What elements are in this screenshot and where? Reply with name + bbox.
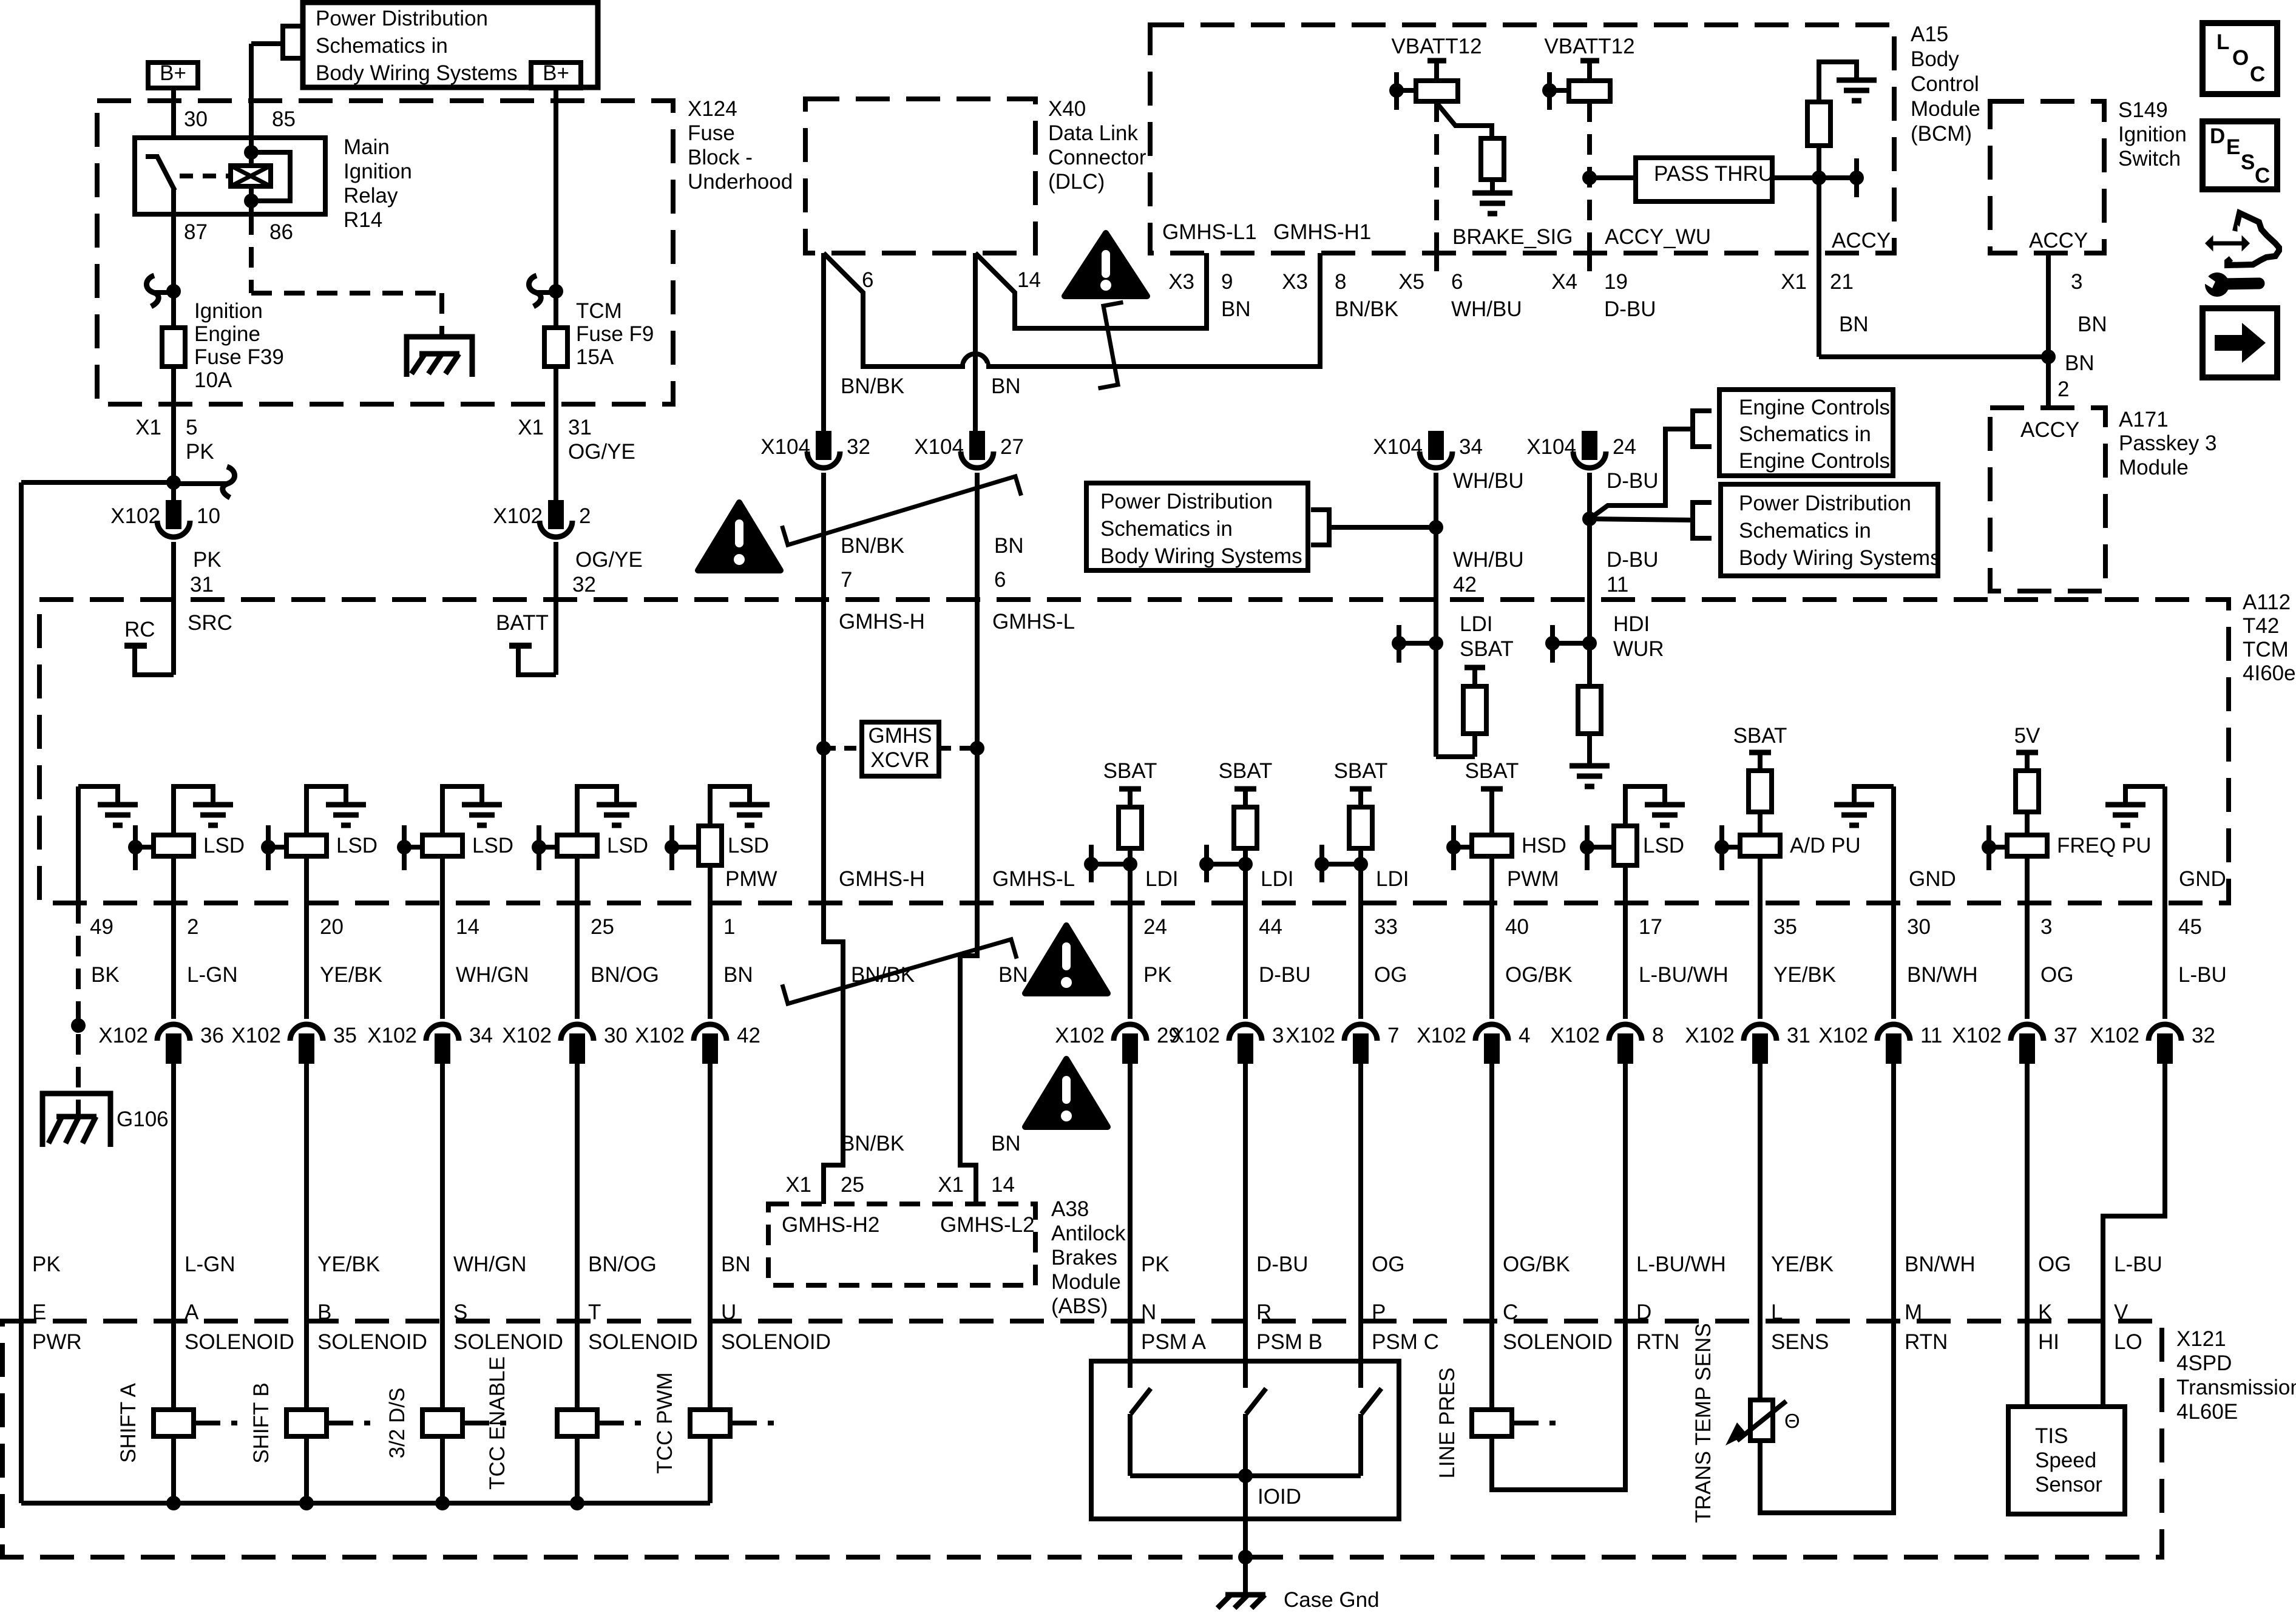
- svg-text:L-BU: L-BU: [2178, 963, 2227, 987]
- warning triangle (CAN): [698, 502, 781, 570]
- svg-text:OG: OG: [1372, 1253, 1404, 1276]
- svg-text:25: 25: [841, 1173, 864, 1197]
- svg-text:X102: X102: [1685, 1024, 1735, 1047]
- connector X102 pin 37: [2011, 1024, 2044, 1041]
- svg-text:OG: OG: [2038, 1253, 2071, 1276]
- line pres return to RTN D: [1492, 1321, 1625, 1490]
- svg-text:A15: A15: [1911, 22, 1948, 46]
- fuse F9: [544, 328, 567, 367]
- svg-text:(DLC): (DLC): [1048, 170, 1105, 194]
- svg-text:BATT: BATT: [496, 611, 549, 635]
- ground G106: [42, 1094, 110, 1147]
- svg-text:A: A: [185, 1300, 199, 1324]
- svg-text:OG/YE: OG/YE: [575, 548, 643, 572]
- wire 87 down to fuse F39: [171, 214, 176, 328]
- svg-text:Module: Module: [2119, 456, 2189, 479]
- svg-text:GMHS-L: GMHS-L: [992, 867, 1075, 891]
- wire through X1 pin 5: [171, 404, 176, 482]
- svg-text:BN: BN: [991, 374, 1021, 398]
- svg-text:PMW: PMW: [725, 867, 777, 891]
- svg-text:RTN: RTN: [1905, 1330, 1948, 1354]
- relay switch: [146, 154, 159, 159]
- connector X104 pin 34: [1430, 433, 1442, 458]
- svg-text:X102: X102: [367, 1024, 417, 1047]
- svg-text:3: 3: [2040, 915, 2052, 939]
- svg-text:87: 87: [184, 220, 208, 244]
- svg-text:85: 85: [272, 107, 296, 131]
- svg-text:LSD: LSD: [203, 834, 245, 857]
- BRAKE_SIG dashed wire: [1434, 101, 1439, 253]
- wire WH/BU 42: [1434, 473, 1438, 600]
- continuation mark (ABS wires): [782, 939, 1017, 1004]
- svg-text:X102: X102: [1055, 1024, 1105, 1047]
- svg-text:HDI: HDI: [1613, 612, 1650, 636]
- connector X102 pin 2: [550, 502, 562, 527]
- svg-text:Body Wiring Systems: Body Wiring Systems: [1739, 546, 1941, 570]
- connector X104 pin 24: [1583, 433, 1596, 458]
- svg-text:9: 9: [1221, 270, 1233, 294]
- A171 passkey 3 module box: [1990, 408, 2105, 591]
- BN junction wire: [1819, 354, 2048, 359]
- A38 antilock brakes module box: [768, 1204, 1035, 1285]
- svg-text:SRC: SRC: [188, 611, 232, 635]
- svg-text:X1: X1: [135, 416, 161, 439]
- svg-text:BN/BK: BN/BK: [841, 374, 904, 398]
- svg-text:L: L: [2216, 30, 2229, 54]
- svg-text:D-BU: D-BU: [1607, 469, 1659, 493]
- relay coil: [231, 166, 271, 186]
- svg-text:Speed: Speed: [2035, 1449, 2096, 1472]
- svg-text:C: C: [2255, 164, 2270, 188]
- svg-text:10: 10: [197, 504, 220, 528]
- svg-text:X102: X102: [1818, 1024, 1868, 1047]
- LSD driver (shift A): [174, 786, 213, 835]
- terminal B+ (right): [531, 63, 581, 88]
- svg-text:BN/WH: BN/WH: [1905, 1253, 1976, 1276]
- svg-text:Passkey 3: Passkey 3: [2119, 431, 2216, 455]
- svg-text:X104: X104: [760, 435, 810, 459]
- svg-text:33: 33: [1374, 915, 1398, 939]
- svg-text:OG/BK: OG/BK: [1503, 1253, 1570, 1276]
- svg-text:Engine: Engine: [194, 322, 260, 346]
- svg-text:Sensor: Sensor: [2035, 1473, 2102, 1496]
- svg-text:X102: X102: [502, 1024, 552, 1047]
- svg-text:C: C: [1503, 1300, 1518, 1324]
- svg-text:35: 35: [1773, 915, 1797, 939]
- svg-text:PWM: PWM: [1507, 867, 1559, 891]
- svg-text:HI: HI: [2038, 1330, 2059, 1354]
- svg-text:3/2 D/S: 3/2 D/S: [385, 1388, 409, 1459]
- svg-text:BN/BK: BN/BK: [1335, 297, 1398, 321]
- warning triangle (ABS 1): [1025, 925, 1108, 993]
- svg-text:SBAT: SBAT: [1219, 759, 1273, 783]
- wire DLC 14 down (BN): [973, 253, 978, 433]
- LSD driver (shift B): [306, 786, 346, 835]
- svg-text:Power Distribution: Power Distribution: [1739, 492, 1911, 515]
- connector X102 pin 3: [1229, 1024, 1262, 1041]
- svg-text:Ignition: Ignition: [194, 299, 263, 323]
- svg-text:BN: BN: [723, 963, 753, 987]
- GMHS XCVR: [816, 741, 831, 756]
- svg-text:14: 14: [456, 915, 479, 939]
- svg-text:Module: Module: [1911, 97, 1980, 121]
- svg-text:X124: X124: [688, 97, 737, 121]
- connector X102 pin 34: [426, 1024, 459, 1041]
- svg-text:BN: BN: [2078, 313, 2107, 336]
- svg-text:31: 31: [568, 416, 592, 439]
- svg-text:BRAKE_SIG: BRAKE_SIG: [1452, 225, 1573, 249]
- svg-text:6: 6: [862, 268, 873, 292]
- junction to pass thru: [1582, 171, 1597, 185]
- wire BN 6 to TCM GMHS-L: [975, 473, 980, 600]
- X40 data link connector box: [805, 99, 1035, 253]
- svg-text:B+: B+: [543, 61, 569, 85]
- DLC pin 6 branch to BCM GMHS-H1: [824, 253, 1320, 367]
- connector X102 pin 4: [1475, 1024, 1508, 1041]
- solenoid SHIFT B: [286, 1410, 327, 1436]
- svg-text:S: S: [453, 1300, 467, 1324]
- svg-text:5: 5: [186, 416, 197, 439]
- svg-text:GMHS-H1: GMHS-H1: [1273, 220, 1371, 244]
- X121 transmission box: [2, 1321, 2162, 1557]
- svg-text:Block -: Block -: [688, 146, 753, 169]
- connector X102 pin 11: [1877, 1024, 1910, 1041]
- icon LOC: [2203, 23, 2277, 94]
- connector X104 pin 27: [971, 433, 983, 458]
- svg-text:3: 3: [1272, 1024, 1284, 1047]
- svg-text:A/D PU: A/D PU: [1790, 834, 1861, 857]
- PSM switch: [1243, 1321, 1248, 1361]
- LSD driver (RTN): [1625, 786, 1665, 826]
- svg-text:D: D: [1636, 1300, 1651, 1324]
- svg-text:LINE PRES: LINE PRES: [1435, 1368, 1459, 1479]
- svg-text:BN: BN: [1221, 297, 1251, 321]
- svg-text:LSD: LSD: [607, 834, 648, 857]
- svg-text:5V: 5V: [2014, 724, 2040, 748]
- svg-text:2: 2: [187, 915, 198, 939]
- note box: Power Distribution Schematics in Body Wiring Systems (top): [303, 2, 598, 87]
- svg-text:D-BU: D-BU: [1259, 963, 1311, 987]
- svg-text:45: 45: [2178, 915, 2202, 939]
- PASS THRU box: [1636, 158, 1772, 201]
- svg-text:WH/GN: WH/GN: [456, 963, 529, 987]
- wire through X1 pin 31: [554, 404, 558, 502]
- svg-text:T42: T42: [2243, 614, 2279, 638]
- junction D-BU with feeds: [1582, 512, 1597, 526]
- svg-text:SOLENOID: SOLENOID: [588, 1330, 698, 1354]
- svg-text:GND: GND: [2179, 867, 2226, 891]
- continuation mark: [1099, 302, 1123, 388]
- wire BN 2 to passkey module: [2046, 357, 2051, 408]
- svg-text:SBAT: SBAT: [1103, 759, 1157, 783]
- svg-text:31: 31: [1787, 1024, 1810, 1047]
- svg-text:LSD: LSD: [728, 834, 769, 857]
- svg-text:PK: PK: [193, 548, 222, 572]
- pin X3 9: [1204, 253, 1209, 271]
- svg-text:Body: Body: [1911, 47, 1959, 71]
- svg-text:OG: OG: [1374, 963, 1407, 987]
- svg-text:Schematics in: Schematics in: [1739, 422, 1871, 446]
- icon DESC: [2203, 121, 2277, 189]
- svg-text:15A: 15A: [576, 345, 614, 369]
- pin X5 6: [1434, 253, 1439, 271]
- HI wire: [2025, 1321, 2030, 1407]
- svg-text:35: 35: [333, 1024, 357, 1047]
- A15 body control module box: [1150, 25, 1894, 253]
- connector X102 pin 42: [694, 1024, 726, 1041]
- junction WH/BU: [1429, 520, 1443, 535]
- svg-text:N: N: [1141, 1300, 1156, 1324]
- svg-text:X102: X102: [1170, 1024, 1220, 1047]
- svg-text:30: 30: [184, 107, 208, 131]
- svg-text:L: L: [1771, 1300, 1783, 1324]
- svg-text:X102: X102: [1417, 1024, 1466, 1047]
- svg-text:31: 31: [190, 573, 214, 597]
- junction pass-thru / ACCY: [1812, 171, 1826, 185]
- DLC pin 14 branch to BCM GMHS-L1: [975, 253, 1207, 328]
- svg-text:M: M: [1905, 1300, 1922, 1324]
- svg-text:YE/BK: YE/BK: [1771, 1253, 1834, 1276]
- svg-text:14: 14: [1017, 268, 1041, 292]
- svg-text:Module: Module: [1051, 1270, 1121, 1294]
- svg-text:X102: X102: [110, 504, 160, 528]
- svg-text:Power Distribution: Power Distribution: [316, 7, 488, 30]
- svg-text:X102: X102: [635, 1024, 685, 1047]
- solenoid feed bus: [21, 1501, 710, 1506]
- svg-text:X5: X5: [1398, 270, 1424, 294]
- bracket: [1311, 510, 1329, 545]
- svg-text:Case Gnd: Case Gnd: [1284, 1588, 1380, 1612]
- svg-text:7: 7: [1387, 1024, 1399, 1047]
- svg-text:8: 8: [1652, 1024, 1664, 1047]
- svg-text:Relay: Relay: [344, 184, 398, 208]
- svg-text:24: 24: [1143, 915, 1167, 939]
- ground (relay coil): [407, 337, 472, 377]
- svg-text:Body Wiring Systems: Body Wiring Systems: [1100, 544, 1302, 568]
- svg-text:SOLENOID: SOLENOID: [185, 1330, 294, 1354]
- svg-text:X1: X1: [518, 416, 544, 439]
- svg-text:Antilock: Antilock: [1051, 1222, 1126, 1245]
- icon arrow box: [2203, 308, 2277, 377]
- svg-text:SHIFT B: SHIFT B: [249, 1382, 273, 1464]
- svg-text:PSM B: PSM B: [1256, 1330, 1322, 1354]
- svg-text:X121: X121: [2176, 1327, 2226, 1351]
- svg-text:30: 30: [604, 1024, 628, 1047]
- svg-text:BN: BN: [991, 1132, 1021, 1155]
- note box: engine controls schematics: [1719, 390, 1893, 476]
- svg-text:SBAT: SBAT: [1460, 637, 1514, 661]
- svg-text:36: 36: [200, 1024, 224, 1047]
- long wires from X102 down to transmission: [171, 1062, 176, 1321]
- svg-text:TCC PWM: TCC PWM: [653, 1372, 677, 1473]
- relay R14 box: [135, 138, 325, 214]
- trans temp sensor (thermistor): [1758, 1321, 1763, 1400]
- icon wrench: [2205, 272, 2229, 297]
- svg-text:27: 27: [1000, 435, 1024, 459]
- svg-text:TRANS TEMP SENS: TRANS TEMP SENS: [1692, 1323, 1715, 1523]
- svg-text:B+: B+: [160, 61, 186, 85]
- wire DLC 6 down (BN/BK): [821, 253, 826, 433]
- svg-text:OG/BK: OG/BK: [1505, 963, 1573, 987]
- svg-text:LSD: LSD: [1643, 834, 1684, 857]
- svg-text:K: K: [2038, 1300, 2052, 1324]
- wire: B+ to relay pin 30: [171, 88, 176, 138]
- svg-text:LDI: LDI: [1460, 612, 1492, 636]
- connector X102 pin 35: [290, 1024, 323, 1041]
- svg-text:X1: X1: [938, 1173, 964, 1197]
- splice curl + junction on F9 wire: [537, 290, 556, 295]
- svg-text:YE/BK: YE/BK: [320, 963, 382, 987]
- svg-text:WH/BU: WH/BU: [1453, 548, 1524, 572]
- continuation mark (CAN): [782, 476, 1021, 545]
- svg-text:1: 1: [723, 915, 735, 939]
- dashed wire 86 to ground: [249, 214, 254, 293]
- svg-text:Fuse F9: Fuse F9: [576, 322, 654, 346]
- svg-text:Transmission: Transmission: [2176, 1376, 2296, 1399]
- A112 T42 TCM module box: [39, 600, 2229, 903]
- svg-text:S149: S149: [2118, 98, 2168, 122]
- pin X4 19: [1587, 253, 1592, 271]
- svg-text:LDI: LDI: [1145, 867, 1178, 891]
- svg-text:PSM A: PSM A: [1141, 1330, 1207, 1354]
- svg-text:PK: PK: [1141, 1253, 1170, 1276]
- svg-text:FREQ PU: FREQ PU: [2057, 834, 2152, 857]
- svg-text:WH/BU: WH/BU: [1451, 297, 1522, 321]
- svg-text:Schematics in: Schematics in: [1739, 519, 1871, 543]
- connector X102 pin 8: [1609, 1024, 1642, 1041]
- svg-text:VBATT12: VBATT12: [1544, 35, 1634, 58]
- svg-text:SOLENOID: SOLENOID: [317, 1330, 427, 1354]
- icon car with arrow: [2227, 213, 2279, 265]
- svg-text:TIS: TIS: [2035, 1424, 2068, 1448]
- svg-text:3: 3: [2071, 270, 2082, 294]
- svg-text:L-GN: L-GN: [187, 963, 238, 987]
- svg-text:HSD: HSD: [1522, 834, 1566, 857]
- svg-text:42: 42: [1453, 573, 1477, 597]
- connector X102 pin 31: [1744, 1024, 1776, 1041]
- svg-text:R14: R14: [344, 208, 382, 232]
- svg-text:42: 42: [737, 1024, 760, 1047]
- svg-text:BN/BK: BN/BK: [841, 1132, 904, 1155]
- svg-text:ACCY: ACCY: [2029, 229, 2088, 252]
- svg-text:40: 40: [1505, 915, 1529, 939]
- svg-text:24: 24: [1613, 435, 1636, 459]
- svg-text:X1: X1: [1781, 270, 1807, 294]
- svg-text:30: 30: [1907, 915, 1931, 939]
- svg-text:Ignition: Ignition: [344, 160, 412, 183]
- svg-text:11: 11: [1920, 1024, 1942, 1047]
- solenoid SHIFT A: [154, 1410, 194, 1436]
- svg-text:LSD: LSD: [336, 834, 378, 857]
- wire hop: [963, 354, 988, 367]
- svg-text:20: 20: [320, 915, 344, 939]
- warning triangle (ABS 2): [1025, 1059, 1108, 1127]
- svg-text:37: 37: [2054, 1024, 2078, 1047]
- BCM internal: resistor to ground (ACCY): [1819, 62, 1857, 102]
- svg-text:Main: Main: [344, 135, 390, 159]
- svg-text:X102: X102: [1550, 1024, 1600, 1047]
- svg-text:GMHS-H: GMHS-H: [839, 867, 925, 891]
- svg-text:X102: X102: [231, 1024, 281, 1047]
- svg-text:SBAT: SBAT: [1465, 759, 1519, 783]
- svg-text:SENS: SENS: [1771, 1330, 1829, 1354]
- svg-text:Fuse: Fuse: [688, 121, 735, 145]
- svg-text:(ABS): (ABS): [1051, 1294, 1108, 1318]
- svg-text:LO: LO: [2114, 1330, 2142, 1354]
- svg-text:RTN: RTN: [1636, 1330, 1679, 1354]
- svg-text:GND: GND: [1909, 867, 1956, 891]
- svg-text:SOLENOID: SOLENOID: [1503, 1330, 1613, 1354]
- svg-text:X4: X4: [1551, 270, 1577, 294]
- svg-text:Control: Control: [1911, 72, 1979, 96]
- svg-text:TCC ENABLE: TCC ENABLE: [486, 1356, 509, 1490]
- svg-text:X104: X104: [1373, 435, 1423, 459]
- svg-text:34: 34: [1459, 435, 1483, 459]
- connector X104 pin 32: [818, 433, 830, 458]
- IOID wire to case ground: [1243, 1476, 1248, 1557]
- svg-text:R: R: [1256, 1300, 1272, 1324]
- svg-text:7: 7: [841, 568, 852, 592]
- svg-text:O: O: [2232, 46, 2249, 70]
- relay switch-coil dashed link: [180, 174, 231, 178]
- svg-text:GMHS-L1: GMHS-L1: [1162, 220, 1257, 244]
- svg-text:Schematics in: Schematics in: [316, 34, 448, 58]
- wire OG/YE 32 to TCM BATT: [554, 542, 558, 600]
- svg-text:19: 19: [1604, 270, 1628, 294]
- svg-text:BN: BN: [1839, 313, 1869, 336]
- svg-text:X3: X3: [1282, 270, 1308, 294]
- svg-text:(BCM): (BCM): [1911, 122, 1972, 146]
- note box: power distribution schematics (right): [1721, 484, 1938, 576]
- svg-text:OG: OG: [2040, 963, 2073, 987]
- svg-text:4: 4: [1519, 1024, 1530, 1047]
- connector X102 pin 29: [1114, 1024, 1146, 1041]
- PSM switch: [1128, 1321, 1133, 1361]
- wire ACCY X1 21: [1817, 178, 1821, 357]
- solenoid 3/2 D/S: [422, 1410, 462, 1436]
- svg-text:17: 17: [1639, 915, 1662, 939]
- svg-text:4L60E: 4L60E: [2176, 1400, 2238, 1424]
- svg-text:X40: X40: [1048, 97, 1086, 121]
- svg-text:PK: PK: [1143, 963, 1172, 987]
- svg-text:P: P: [1372, 1300, 1386, 1324]
- wire B+ to fuse F9: [554, 88, 558, 328]
- ACCY_WU dashed wire: [1587, 101, 1592, 253]
- svg-text:Fuse F39: Fuse F39: [194, 345, 284, 369]
- svg-text:G106: G106: [117, 1107, 169, 1131]
- solenoid column wires: [171, 1321, 176, 1410]
- svg-text:Switch: Switch: [2118, 147, 2181, 171]
- bracket to note box: [283, 26, 303, 58]
- LO wire: [2101, 1321, 2105, 1407]
- svg-text:Engine Controls: Engine Controls: [1739, 449, 1890, 473]
- svg-text:21: 21: [1830, 270, 1854, 294]
- svg-text:YE/BK: YE/BK: [317, 1253, 380, 1276]
- svg-text:S: S: [2241, 150, 2255, 174]
- svg-text:X102: X102: [493, 504, 543, 528]
- svg-text:GMHS-L: GMHS-L: [992, 610, 1075, 634]
- svg-text:GMHS-H: GMHS-H: [839, 610, 925, 634]
- svg-text:D-BU: D-BU: [1604, 297, 1656, 321]
- svg-text:Brakes: Brakes: [1051, 1246, 1117, 1269]
- svg-text:49: 49: [90, 915, 113, 939]
- svg-text:Θ: Θ: [1784, 1410, 1800, 1432]
- svg-text:11: 11: [1607, 573, 1628, 597]
- splice curl + junction on F39 wire: [154, 290, 174, 295]
- svg-text:PSM C: PSM C: [1372, 1330, 1439, 1354]
- connector X102 pin 7: [1344, 1024, 1377, 1041]
- wire GMHS-H 38 to ABS: [824, 903, 843, 1204]
